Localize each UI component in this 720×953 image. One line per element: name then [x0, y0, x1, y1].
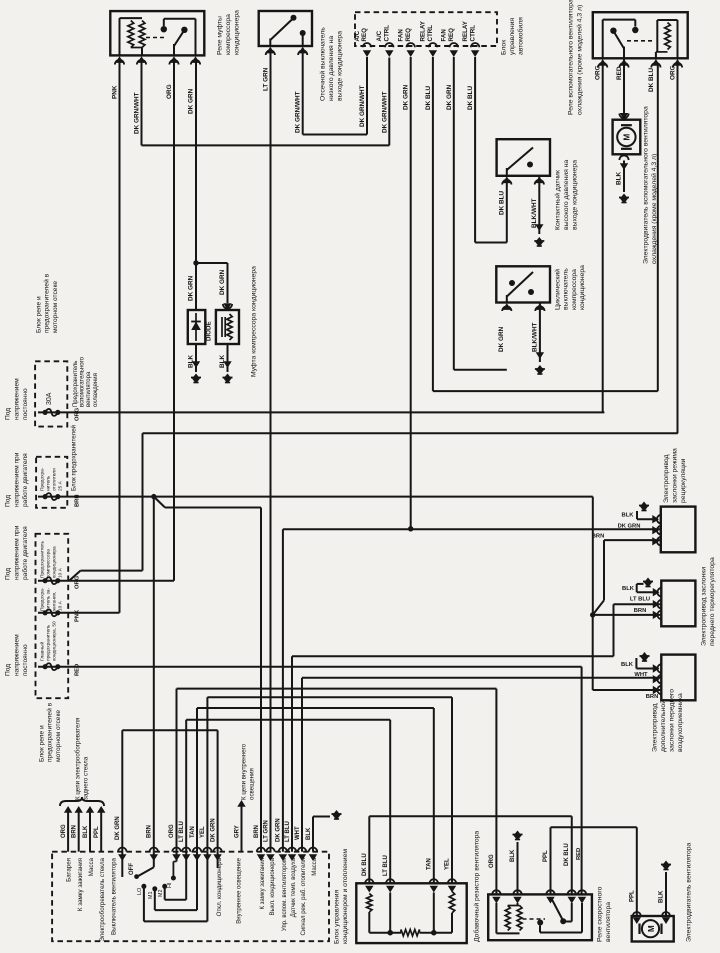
svg-text:HI: HI: [167, 883, 173, 888]
svg-text:DK GRN: DK GRN: [498, 326, 505, 352]
svg-text:GRY: GRY: [234, 825, 240, 838]
svg-text:BLK/WHT: BLK/WHT: [532, 322, 539, 352]
svg-text:Предохра-: Предохра-: [40, 467, 46, 491]
svg-text:Электродвигатель вентилятора: Электродвигатель вентилятора: [686, 842, 693, 942]
svg-text:RED: RED: [616, 66, 623, 80]
svg-text:Предохранитель: Предохранитель: [40, 540, 46, 578]
svg-text:LT GRN: LT GRN: [263, 820, 269, 842]
svg-text:CTRL: CTRL: [469, 25, 476, 42]
svg-text:LT BLU: LT BLU: [630, 597, 650, 603]
svg-text:дополнительной: дополнительной: [659, 700, 667, 752]
svg-text:FAN: FAN: [398, 29, 405, 42]
svg-text:К цепи внутреннего: К цепи внутреннего: [240, 743, 247, 800]
svg-text:предохранителей в: предохранителей в: [46, 702, 54, 762]
svg-text:BLK: BLK: [188, 354, 195, 368]
svg-text:ORG: ORG: [489, 854, 495, 868]
svg-text:освещения: освещения: [249, 768, 256, 800]
svg-text:DK GRN: DK GRN: [188, 275, 195, 301]
svg-text:M1: M1: [148, 892, 154, 900]
svg-text:RELAY: RELAY: [420, 20, 427, 41]
svg-text:DK GRN: DK GRN: [219, 269, 226, 295]
svg-text:К замку зажигания: К замку зажигания: [77, 858, 84, 911]
svg-text:DK GRN/WHT: DK GRN/WHT: [134, 92, 141, 134]
svg-text:REQ: REQ: [361, 28, 368, 42]
svg-text:Датчик темп. воздуха: Датчик темп. воздуха: [291, 857, 297, 917]
svg-text:Реле скоростного: Реле скоростного: [597, 886, 604, 942]
svg-text:охлаждения (кроме моделей 4,3: охлаждения (кроме моделей 4,3 л): [576, 5, 584, 115]
svg-text:BRN: BRN: [147, 825, 153, 838]
svg-text:Внутреннее освещение: Внутреннее освещение: [237, 857, 243, 923]
svg-text:RED: RED: [576, 848, 582, 860]
svg-text:BRN: BRN: [646, 694, 659, 700]
svg-text:Реле муфты: Реле муфты: [217, 16, 224, 55]
svg-text:BLK: BLK: [622, 586, 635, 592]
svg-text:BLK: BLK: [622, 513, 635, 519]
svg-text:REQ: REQ: [448, 28, 455, 42]
svg-text:YEL: YEL: [200, 826, 206, 838]
svg-text:ORG: ORG: [166, 84, 173, 99]
svg-text:Электродвигатель вспомогательн: Электродвигатель вспомогательного вентил…: [643, 106, 650, 264]
svg-text:YEL: YEL: [445, 858, 451, 870]
svg-text:Выкл. кондиционера: Выкл. кондиционера: [270, 857, 276, 915]
svg-text:кондиционера: кондиционера: [234, 10, 241, 55]
svg-text:кондиционера, 50: кондиционера, 50: [51, 621, 57, 661]
svg-text:Масса: Масса: [312, 857, 318, 875]
svg-text:Предохра-: Предохра-: [40, 587, 46, 611]
svg-text:DK GRN: DK GRN: [446, 84, 453, 110]
svg-text:постоянно: постоянно: [22, 388, 29, 420]
svg-text:Реле вспомогательного вентилят: Реле вспомогательного вентилятора: [568, 0, 575, 115]
svg-text:напряжением при: напряжением при: [13, 452, 20, 507]
svg-text:LT GRN: LT GRN: [262, 67, 269, 91]
svg-text:DK GRN: DK GRN: [115, 816, 121, 840]
svg-text:высокого давления на: высокого давления на: [563, 160, 570, 230]
svg-text:Выключатель вентилятора: Выключатель вентилятора: [110, 857, 117, 935]
svg-text:BRN: BRN: [75, 494, 81, 507]
svg-text:напряжением при: напряжением при: [13, 525, 20, 580]
svg-text:BLK: BLK: [621, 662, 634, 668]
svg-text:работе двигателя: работе двигателя: [21, 453, 29, 507]
svg-text:WHT: WHT: [634, 672, 648, 678]
svg-text:кондиционера: кондиционера: [579, 265, 586, 310]
svg-text:BRN: BRN: [592, 534, 605, 540]
svg-text:Под: Под: [5, 408, 12, 420]
svg-text:ORG: ORG: [670, 65, 677, 80]
svg-text:BLK: BLK: [616, 171, 623, 185]
svg-text:ORG: ORG: [75, 575, 81, 589]
svg-text:отопителя: отопителя: [52, 468, 57, 491]
svg-text:вспомогательного: вспомогательного: [80, 356, 86, 407]
svg-text:BRN: BRN: [254, 825, 260, 838]
svg-text:кондиционером и отоплением: кондиционером и отоплением: [342, 849, 349, 944]
svg-text:CTRL: CTRL: [384, 25, 391, 42]
svg-text:Блок предохранителей: Блок предохранителей: [71, 424, 78, 491]
svg-text:Масса: Масса: [88, 857, 95, 876]
svg-text:охлаждения: охлаждения: [93, 373, 99, 407]
svg-text:10 А: 10 А: [57, 567, 63, 578]
svg-text:Под: Под: [5, 664, 12, 676]
svg-text:DK GRN: DK GRN: [618, 524, 641, 530]
svg-text:Электропривод заслонки: Электропривод заслонки: [701, 567, 708, 646]
svg-text:A/C: A/C: [354, 30, 361, 41]
svg-text:управления: управления: [509, 18, 516, 55]
svg-text:Блок управления: Блок управления: [334, 890, 341, 944]
svg-text:нитель: нитель: [47, 475, 52, 491]
svg-text:30А: 30А: [46, 392, 53, 405]
svg-text:PPL: PPL: [629, 890, 635, 902]
svg-text:A/C: A/C: [376, 30, 383, 41]
svg-text:Контактный датчик: Контактный датчик: [554, 170, 562, 230]
svg-text:работе двигателя: работе двигателя: [21, 526, 29, 580]
svg-text:моторном отсеке: моторном отсеке: [55, 710, 62, 762]
svg-text:ORG: ORG: [75, 407, 81, 421]
svg-text:нитель за-: нитель за-: [47, 588, 52, 611]
svg-text:Электропривод: Электропривод: [663, 454, 670, 503]
svg-text:предохранитель: предохранитель: [47, 624, 52, 661]
svg-text:Электрообогреватель стекла: Электрообогреватель стекла: [99, 857, 106, 941]
svg-text:DK BLU: DK BLU: [564, 843, 570, 866]
svg-text:автомобиля: автомобиля: [517, 17, 525, 55]
svg-text:BRN: BRN: [634, 608, 647, 614]
svg-text:DK BLU: DK BLU: [467, 85, 474, 110]
svg-text:заслонки режима: заслонки режима: [672, 448, 679, 503]
svg-text:заднего стекла: заднего стекла: [83, 756, 90, 800]
svg-text:компрессора: компрессора: [571, 269, 578, 310]
svg-text:DK BLU: DK BLU: [498, 190, 505, 215]
svg-text:DK GRN/WHT: DK GRN/WHT: [359, 85, 366, 127]
svg-text:Блок реле и: Блок реле и: [39, 725, 46, 762]
svg-text:DK BLU: DK BLU: [648, 67, 655, 92]
svg-text:выходе кондиционера: выходе кондиционера: [337, 31, 344, 101]
svg-text:M2: M2: [158, 890, 164, 898]
svg-text:выключатель: выключатель: [563, 268, 570, 310]
svg-text:компрессора: компрессора: [47, 549, 52, 578]
svg-text:LT BLU: LT BLU: [383, 855, 389, 876]
svg-text:Главный: Главный: [39, 642, 46, 661]
svg-text:M: M: [623, 134, 632, 141]
svg-text:вентилятора: вентилятора: [605, 902, 612, 942]
svg-text:REQ: REQ: [405, 28, 412, 42]
svg-text:компрессора: компрессора: [225, 14, 232, 55]
svg-text:TAN: TAN: [426, 858, 432, 870]
svg-text:Под: Под: [5, 568, 12, 580]
svg-text:PPL: PPL: [94, 826, 100, 838]
svg-text:BLK: BLK: [659, 890, 665, 903]
svg-text:LT BLU: LT BLU: [179, 821, 185, 842]
svg-text:M: M: [647, 925, 656, 932]
svg-text:Циклический: Циклический: [554, 269, 562, 310]
svg-text:выходе кондиционера: выходе кондиционера: [572, 160, 579, 230]
svg-text:Сигнал реж. раб. отопителя: Сигнал реж. раб. отопителя: [301, 858, 307, 935]
svg-text:напряжением: напряжением: [13, 634, 20, 676]
svg-text:CTRL: CTRL: [427, 25, 434, 42]
svg-text:К цепи электрообогревателя: К цепи электрообогревателя: [75, 718, 82, 800]
svg-text:DK GRN: DK GRN: [188, 88, 195, 114]
svg-text:Упр. вспом. вентилятором: Упр. вспом. вентилятором: [282, 858, 288, 931]
svg-text:Блок: Блок: [501, 40, 508, 55]
svg-text:BLK: BLK: [83, 825, 89, 838]
svg-text:WHT: WHT: [295, 826, 301, 840]
svg-text:PPL: PPL: [543, 850, 549, 862]
svg-text:DK BLU: DK BLU: [362, 853, 368, 876]
svg-text:напряжением: напряжением: [13, 378, 20, 420]
svg-text:TAN: TAN: [190, 826, 196, 838]
svg-text:DK GRN/WHT: DK GRN/WHT: [295, 91, 302, 133]
svg-text:LT BLU: LT BLU: [285, 821, 291, 842]
svg-text:BLK/WHT: BLK/WHT: [531, 198, 538, 228]
svg-text:PNK: PNK: [75, 609, 81, 622]
svg-text:10 А: 10 А: [57, 600, 63, 611]
svg-text:Блок реле и: Блок реле и: [36, 296, 43, 333]
svg-text:DK GRN: DK GRN: [276, 818, 282, 842]
svg-text:Батарея: Батарея: [66, 858, 73, 882]
svg-text:RELAY: RELAY: [462, 20, 469, 41]
svg-text:DK BLU: DK BLU: [425, 85, 432, 110]
svg-text:ORG: ORG: [169, 824, 175, 838]
svg-text:DK GRN: DK GRN: [403, 84, 410, 110]
svg-text:LO: LO: [137, 888, 143, 895]
svg-text:DIODE: DIODE: [206, 321, 213, 341]
svg-text:воздухоприемника: воздухоприемника: [677, 693, 684, 752]
svg-text:DK GRN: DK GRN: [210, 818, 216, 842]
svg-text:BLK: BLK: [510, 849, 516, 862]
svg-text:Добавочный резистор вентилятор: Добавочный резистор вентилятора: [473, 831, 481, 942]
svg-text:рециркуляции: рециркуляции: [680, 458, 687, 503]
svg-text:ORG: ORG: [61, 824, 67, 838]
svg-text:BLK: BLK: [219, 354, 226, 368]
svg-text:постоянно: постоянно: [22, 644, 29, 676]
svg-text:кондиционера: кондиционера: [52, 546, 57, 578]
svg-text:Муфта компрессора кондиционера: Муфта компрессора кондиционера: [251, 266, 258, 377]
svg-text:RED: RED: [75, 664, 81, 676]
svg-text:FAN: FAN: [441, 29, 448, 42]
svg-text:Отсечной выключатель: Отсечной выключатель: [319, 27, 327, 101]
svg-text:Под: Под: [5, 495, 12, 507]
svg-text:BLK: BLK: [306, 827, 312, 840]
svg-text:вентилятора: вентилятора: [86, 371, 92, 407]
svg-text:низкого давления на: низкого давления на: [328, 36, 335, 101]
svg-text:25 А: 25 А: [57, 480, 63, 491]
svg-text:DK GRN/WHT: DK GRN/WHT: [381, 91, 388, 133]
svg-text:переднего терморегулятора: переднего терморегулятора: [709, 557, 716, 646]
svg-text:ORG: ORG: [595, 65, 602, 80]
svg-text:PNK: PNK: [112, 85, 119, 99]
svg-text:Предохранитель: Предохранитель: [73, 361, 79, 407]
svg-text:BRN: BRN: [72, 825, 78, 838]
svg-text:заслонки переднего: заслонки переднего: [669, 689, 676, 752]
svg-text:моторном отсеке: моторном отсеке: [52, 281, 59, 333]
svg-text:Электропривод: Электропривод: [652, 703, 659, 752]
svg-text:OFF: OFF: [129, 863, 135, 875]
svg-text:предохранителей в: предохранителей в: [43, 273, 51, 333]
svg-text:жигания,: жигания,: [52, 592, 57, 611]
svg-text:К замку зажигания: К замку зажигания: [260, 858, 266, 910]
